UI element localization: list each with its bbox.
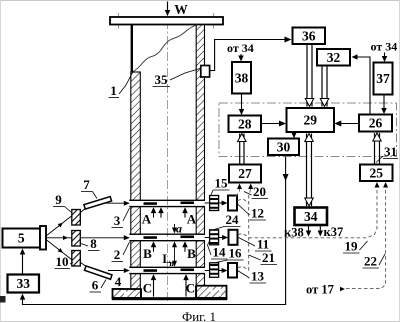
column bottom right flange foot: [196, 286, 226, 298]
text ot 17: [306, 283, 345, 297]
unit 32: [317, 49, 350, 66]
optical filter 16: [210, 263, 219, 278]
svg-text:3: 3: [114, 213, 121, 228]
dash-dot frame of unit 31: [219, 103, 397, 157]
tray level A: [129, 200, 205, 206]
wire 38 to 28: [239, 94, 245, 116]
flange feet separators: [124, 287, 221, 297]
label 1: [109, 72, 134, 99]
dashed signal line 12 to 27: [236, 184, 242, 197]
svg-text:26: 26: [369, 116, 383, 131]
unit 29: [287, 108, 335, 132]
label 35: [153, 69, 201, 88]
double wire 36 to 29: [305, 44, 314, 107]
beam splitter 8: [72, 231, 81, 247]
svg-text:4: 4: [115, 274, 122, 289]
svg-text:10: 10: [56, 254, 69, 269]
double wire 27 to 28: [238, 134, 247, 165]
tray level B: [129, 234, 205, 241]
wavy break line inside column: [133, 25, 197, 72]
svg-text:от 17: от 17: [306, 283, 334, 297]
unit 38: [232, 62, 251, 94]
label 16: [215, 246, 244, 263]
unit 30: [268, 139, 299, 156]
photodetector 12: [228, 196, 237, 211]
svg-text:5: 5: [18, 231, 25, 246]
svg-text:24: 24: [226, 212, 240, 227]
flow arrows and C letters under tray C: [143, 274, 195, 297]
svg-text:33: 33: [17, 276, 31, 291]
light source 5: [3, 229, 41, 248]
arrow ot34 into 38: [238, 54, 244, 62]
svg-text:7: 7: [83, 177, 90, 192]
optical filter 15: [210, 196, 219, 211]
svg-text:13: 13: [251, 269, 265, 284]
beam from splitter 8 into level B: [81, 235, 130, 240]
beam ray to splitter 10: [46, 240, 72, 260]
flow arrows and B letters under tray B: [143, 241, 196, 261]
svg-text:27: 27: [238, 166, 252, 181]
control unit 33: [8, 275, 40, 293]
svg-text:21: 21: [262, 250, 275, 265]
label 10: [55, 254, 74, 269]
svg-text:12: 12: [251, 206, 264, 221]
wire 26 to 29: [334, 121, 359, 127]
svg-text:22: 22: [364, 254, 377, 269]
svg-text:к37: к37: [324, 225, 344, 239]
unit 34: [295, 208, 328, 226]
label 11: [239, 237, 272, 252]
double wire 29 and 34: [305, 134, 314, 207]
svg-text:34: 34: [304, 209, 318, 224]
label 12: [238, 204, 267, 221]
svg-text:6: 6: [92, 278, 99, 293]
beam splitter 9: [72, 210, 81, 226]
beam 9 to mirror 7: [81, 203, 93, 213]
svg-text:19: 19: [345, 239, 359, 254]
feedback wire from 30 down and to 33: [20, 155, 289, 304]
svg-text:29: 29: [304, 113, 318, 128]
svg-text:A: A: [142, 212, 152, 227]
label 20: [244, 184, 268, 199]
svg-text:a: a: [176, 222, 182, 236]
svg-text:W: W: [174, 2, 188, 17]
label 7: [81, 177, 97, 199]
beam 10 to mirror 6: [81, 263, 95, 273]
label 31 on frame: [376, 144, 398, 163]
tray level C: [129, 267, 205, 273]
mirror 7: [84, 197, 112, 209]
dashed stub detector 12 to bus: [238, 199, 249, 203]
svg-text:C: C: [143, 281, 152, 296]
svg-text:30: 30: [277, 139, 291, 154]
svg-text:35: 35: [155, 72, 169, 87]
wire 29 to 30: [291, 132, 297, 138]
unit 37: [374, 63, 393, 95]
svg-text:15: 15: [215, 176, 229, 191]
dashed stub detector 11 to bus: [238, 234, 249, 238]
unit 25: [360, 165, 393, 182]
label 8: [81, 236, 100, 251]
label 19: [343, 239, 368, 254]
svg-text:от 34: от 34: [227, 41, 254, 55]
arrow k38 from 34: [284, 225, 311, 240]
svg-text:C: C: [186, 281, 195, 296]
svg-text:32: 32: [327, 50, 341, 65]
label 13: [238, 269, 267, 284]
wire 28 to 29: [261, 121, 286, 127]
dimension L_v between trays B and C: [162, 241, 177, 268]
dimension a between trays: [172, 222, 182, 236]
pressure sensor 35 on wall: [201, 66, 210, 78]
beam exit level A to detectors: [205, 201, 228, 206]
mirror 6: [85, 266, 112, 279]
unit 26: [359, 115, 392, 132]
label 2: [112, 242, 130, 262]
svg-text:A: A: [187, 212, 197, 227]
label 21: [249, 250, 277, 265]
column bottom base line: [112, 297, 228, 300]
column interior bottom walls: [141, 286, 196, 298]
label 9: [53, 192, 72, 213]
svg-text:в: в: [169, 259, 174, 268]
beam from mirror 7 into level A: [105, 201, 130, 206]
label 14: [208, 241, 228, 260]
label 3: [112, 208, 130, 228]
column bottom left flange foot: [113, 289, 142, 298]
column centerline: [167, 4, 169, 301]
beam splitter 10: [72, 251, 81, 267]
wire 33 to 5: [20, 249, 26, 275]
arrow k37 from 34: [318, 225, 344, 239]
double wire 25 to 26: [373, 133, 382, 165]
svg-text:1: 1: [110, 83, 117, 98]
svg-text:38: 38: [235, 70, 249, 85]
column 1 right wall hatched sections: [196, 25, 204, 286]
unit 36: [293, 28, 326, 45]
beam ray to splitter 9: [46, 216, 72, 236]
dashed stub detector 13 to bus: [238, 267, 249, 271]
wire 37 to 26: [381, 95, 387, 115]
label 6: [90, 278, 107, 293]
dashed line 22 from ot17 to 25: [346, 182, 388, 289]
label 24: [214, 212, 241, 230]
svg-text:14: 14: [213, 245, 227, 260]
svg-text:36: 36: [302, 28, 316, 43]
beam ray to splitter 8: [46, 236, 72, 241]
wire 26 to 32: [352, 54, 371, 114]
flow arrows and A letters under tray A: [142, 207, 197, 226]
unit 27: [229, 165, 261, 183]
beam exit level B to detectors: [205, 235, 229, 240]
column 1 left wall upper thin section: [131, 25, 133, 72]
photodetector 13: [228, 263, 237, 278]
arrow ot34 into 37: [382, 53, 388, 63]
dashed line 19 from bus to 25: [249, 182, 380, 238]
optical filter 24: [210, 230, 219, 245]
svg-text:2: 2: [114, 247, 121, 262]
label 15: [211, 176, 230, 196]
svg-text:25: 25: [370, 165, 384, 180]
photodetector 11: [229, 230, 238, 245]
svg-text:8: 8: [90, 236, 97, 251]
svg-text:37: 37: [376, 71, 390, 86]
label 22: [363, 254, 386, 269]
W load arrow: [165, 2, 189, 18]
svg-text:B: B: [187, 246, 196, 261]
top plate of column 1: [110, 13, 223, 29]
svg-text:от 34: от 34: [371, 40, 398, 54]
beam exit level C to detectors: [205, 268, 228, 273]
svg-text:28: 28: [238, 116, 252, 131]
svg-text:Фиг. 1: Фиг. 1: [182, 309, 216, 322]
lens of source 5: [40, 226, 46, 250]
beam from mirror 6 into level C: [108, 268, 130, 273]
svg-text:20: 20: [253, 184, 266, 199]
double wire 32 to 29: [320, 66, 329, 107]
label 4: [113, 274, 137, 290]
svg-text:31: 31: [384, 144, 397, 159]
svg-text:9: 9: [55, 192, 62, 207]
wire sensor 35 to block 36: [210, 37, 292, 71]
unit 28: [229, 116, 262, 133]
svg-text:B: B: [143, 246, 152, 261]
column 1 left wall hatched sections: [131, 72, 141, 290]
dashed bus line 20 to 27: [248, 184, 253, 271]
svg-text:16: 16: [229, 246, 243, 261]
